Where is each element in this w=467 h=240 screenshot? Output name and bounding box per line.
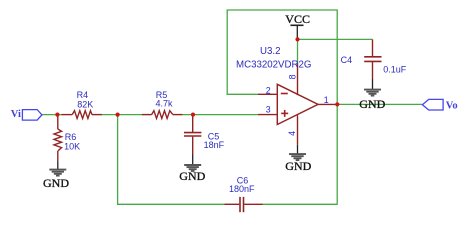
svg-text:4.7k: 4.7k bbox=[156, 99, 174, 109]
resistor R4 bbox=[62, 111, 102, 119]
capacitor C6 bbox=[225, 197, 263, 212]
svg-text:2: 2 bbox=[266, 86, 271, 96]
wire: bottom feedback right segment from C6 bbox=[262, 203, 337, 205]
wire: VCC node down to pin 8 bbox=[297, 39, 299, 64]
svg-text:Vi: Vi bbox=[11, 109, 21, 120]
wire: right vertical feedback x=337 bbox=[336, 10, 338, 205]
ground below op-amp pin 4 bbox=[285, 145, 311, 173]
wire: VCC node to C4 bbox=[298, 38, 373, 40]
junction node VCC/C4/pin8 bbox=[295, 37, 299, 41]
wire: op-amp output to Vo bbox=[337, 103, 423, 105]
wire: bottom feedback left segment to C6 bbox=[117, 203, 225, 205]
svg-text:0.1uF: 0.1uF bbox=[383, 65, 407, 75]
VCC power symbol bbox=[285, 12, 310, 39]
wire: left vertical down to pin 2 bbox=[226, 10, 228, 94]
svg-text:3: 3 bbox=[266, 105, 271, 115]
wire: to op-amp pin 2 bbox=[227, 93, 258, 95]
wire: R5 to op-amp pin 3 bbox=[182, 114, 258, 116]
port Vo bbox=[422, 99, 457, 111]
svg-text:82K: 82K bbox=[77, 99, 93, 109]
junction node R4/R5/feedback bbox=[116, 113, 120, 117]
resistor R5 bbox=[142, 111, 183, 119]
svg-text:8: 8 bbox=[288, 74, 298, 79]
port Vi bbox=[11, 109, 42, 120]
svg-text:1: 1 bbox=[324, 95, 329, 105]
ground below C5 bbox=[179, 155, 205, 183]
svg-text:GND: GND bbox=[179, 169, 205, 183]
svg-text:10K: 10K bbox=[64, 142, 80, 152]
svg-text:U3.2: U3.2 bbox=[260, 46, 280, 57]
op-amp U3.2 bbox=[258, 64, 337, 145]
junction node R5/C5/pin3 bbox=[191, 113, 195, 117]
svg-text:180nF: 180nF bbox=[229, 184, 255, 194]
wire: feedback left vertical from R4/R5 node down bbox=[117, 115, 119, 205]
svg-text:GND: GND bbox=[359, 97, 385, 111]
wire: R4 to R5 bbox=[102, 114, 143, 116]
svg-text:GND: GND bbox=[43, 176, 69, 190]
wire: top feedback horizontal bbox=[227, 9, 338, 11]
ground below R6 bbox=[43, 161, 69, 190]
svg-text:GND: GND bbox=[285, 159, 311, 173]
svg-text:18nF: 18nF bbox=[204, 140, 225, 150]
svg-text:VCC: VCC bbox=[285, 12, 310, 26]
ground below C4 bbox=[359, 79, 385, 111]
svg-text:C4: C4 bbox=[341, 55, 353, 65]
resistor R6 bbox=[54, 116, 62, 162]
svg-text:MC33202VDR2G: MC33202VDR2G bbox=[236, 60, 311, 71]
junction node Vi/R4/R6 bbox=[55, 113, 59, 117]
svg-text:4: 4 bbox=[287, 131, 297, 136]
junction node output/feedback bbox=[335, 102, 339, 106]
capacitor C4 bbox=[364, 39, 381, 79]
wire: Vi to R4 (net Vi) bbox=[42, 114, 62, 116]
capacitor C5 bbox=[184, 116, 201, 155]
svg-text:Vo: Vo bbox=[446, 101, 458, 112]
